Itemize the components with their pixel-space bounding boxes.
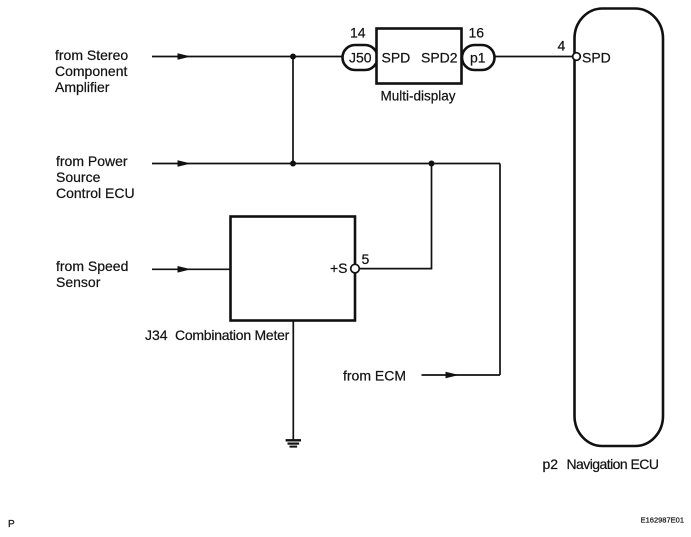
junction node: top wire to vertical tie	[290, 54, 296, 60]
svg-text:Navigation ECU: Navigation ECU	[567, 456, 659, 472]
svg-text:Source: Source	[56, 169, 101, 185]
wire: power source control ECU feed (horizontal)	[152, 163, 500, 165]
svg-text:Amplifier: Amplifier	[55, 79, 110, 95]
svg-text:J50: J50	[349, 50, 372, 66]
arrow on power wire	[178, 160, 192, 167]
pin terminal +S / 5 on combination meter (open circle)	[351, 264, 360, 273]
svg-text:SPD: SPD	[382, 50, 411, 66]
svg-text:Control ECU: Control ECU	[56, 185, 135, 201]
svg-text:from Power: from Power	[56, 153, 128, 169]
wire: +S pin branch to power wire	[359, 164, 431, 269]
wire: ground stem from combination meter	[292, 321, 294, 441]
connector J50 (oval)	[343, 45, 378, 70]
component: J34 Combination Meter box	[231, 217, 356, 321]
label: J34 Combination Meter	[145, 327, 290, 343]
svg-text:from Stereo: from Stereo	[55, 47, 128, 63]
svg-text:14: 14	[350, 25, 366, 41]
arrow on speed sensor wire	[178, 266, 192, 273]
svg-text:16: 16	[469, 25, 485, 41]
label: p2 Navigation ECU	[543, 456, 659, 472]
wire: right vertical drop from power wire to ECM wire	[499, 164, 501, 376]
wire: stereo amplifier feed (horizontal, top)	[152, 56, 343, 58]
svg-text:P: P	[8, 519, 15, 530]
svg-text:E162987E01: E162987E01	[641, 516, 684, 525]
svg-text:5: 5	[362, 251, 370, 267]
svg-text:from Speed: from Speed	[56, 258, 128, 274]
svg-text:4: 4	[558, 38, 566, 54]
wire: speed sensor feed into combination meter	[152, 268, 231, 270]
junction node: power wire / vertical tie	[290, 161, 296, 167]
component: p2 Navigation ECU (rounded box)	[575, 9, 664, 447]
label: from Stereo Component Amplifier	[55, 47, 128, 95]
svg-text:SPD2: SPD2	[421, 50, 458, 66]
svg-text:p1: p1	[470, 50, 486, 66]
connector p1 (oval)	[462, 45, 495, 70]
arrow on ECM wire	[446, 372, 460, 379]
wire: p1 to navigation ECU pin 4	[495, 56, 574, 58]
pin terminal 4 SPD on Navigation ECU (open circle)	[573, 53, 581, 61]
svg-text:from ECM: from ECM	[343, 368, 406, 384]
junction node: power wire / +S branch	[429, 161, 435, 167]
svg-text:Combination Meter: Combination Meter	[175, 327, 290, 343]
svg-text:p2: p2	[543, 456, 559, 472]
wire: vertical tie from top wire down to power wire	[292, 57, 294, 164]
ground symbol	[286, 440, 301, 446]
svg-text:+S: +S	[330, 260, 348, 276]
svg-text:Component: Component	[55, 63, 127, 79]
label: from Speed Sensor	[56, 258, 128, 290]
label: from Power Source Control ECU	[56, 153, 135, 201]
svg-text:SPD: SPD	[582, 50, 611, 66]
wire: ECM feed (horizontal)	[422, 374, 501, 376]
svg-text:J34: J34	[145, 327, 168, 343]
arrow on stereo amplifier wire	[178, 53, 192, 60]
svg-text:Sensor: Sensor	[56, 274, 101, 290]
svg-text:Multi-display: Multi-display	[381, 89, 456, 104]
component: Multi-display box	[377, 29, 462, 84]
